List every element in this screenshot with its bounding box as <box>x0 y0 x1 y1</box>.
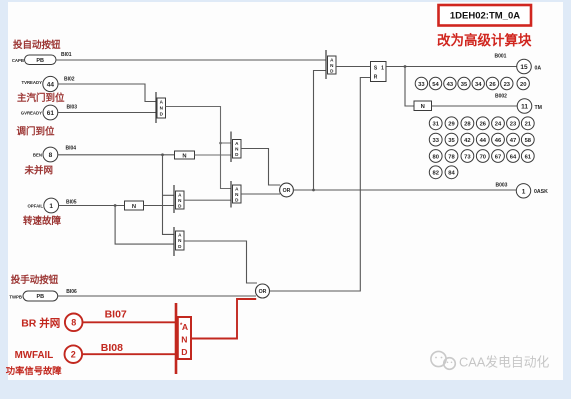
wire AND4 output to OR1 pin2 <box>241 193 280 195</box>
svg-text:35: 35 <box>448 138 455 144</box>
terminal B001 output 15 <box>517 59 532 74</box>
title block 1DEH02:TM_0A <box>439 5 532 26</box>
svg-text:TWPB: TWPB <box>9 295 22 300</box>
svg-text:D: D <box>181 347 187 357</box>
svg-text:1: 1 <box>381 66 384 72</box>
svg-text:OPFAIL: OPFAIL <box>27 204 43 209</box>
svg-text:24: 24 <box>495 122 502 128</box>
wire OR1 output to terminal B003 <box>293 189 516 191</box>
svg-text:N: N <box>421 104 425 110</box>
svg-text:43: 43 <box>447 82 454 88</box>
wire BI04: BEN to N1 <box>58 154 175 156</box>
gate AND3 <box>174 185 184 213</box>
wire BI01: CAPB to AND6 pin1 <box>56 59 326 61</box>
svg-text:54: 54 <box>432 82 439 88</box>
svg-text:23: 23 <box>504 82 511 88</box>
svg-text:2: 2 <box>71 350 76 360</box>
svg-text:80: 80 <box>432 154 438 160</box>
svg-text:21: 21 <box>525 122 532 128</box>
wire BI05 branch down to AND5 pin2 <box>115 206 174 245</box>
svg-text:46: 46 <box>495 138 502 144</box>
svg-text:CAA发电自动化: CAA发电自动化 <box>459 355 549 370</box>
terminal pins grid row 3: 80 78 73 70 67 64 61 <box>429 150 534 163</box>
gate OR2 <box>256 284 270 298</box>
svg-text:A: A <box>182 322 188 332</box>
svg-text:64: 64 <box>510 154 517 160</box>
svg-text:主汽门到位: 主汽门到位 <box>17 92 65 104</box>
input terminal BR 8 (red) <box>65 314 83 332</box>
svg-text:B002: B002 <box>495 94 507 100</box>
svg-text:61: 61 <box>525 154 532 160</box>
svg-text:OR: OR <box>259 289 267 295</box>
svg-text:PB: PB <box>36 58 44 64</box>
wire AND3 output to AND4 pin2 <box>184 199 231 201</box>
wire AND5 output to OR2 <box>184 241 257 283</box>
svg-text:功率信号故障: 功率信号故障 <box>6 365 62 376</box>
junction BI04 node at (162.5,154.8) <box>161 153 164 156</box>
svg-text:23: 23 <box>510 122 517 128</box>
svg-text:B001: B001 <box>495 54 507 60</box>
svg-text:CAPB: CAPB <box>12 58 24 63</box>
svg-text:投手动按钮: 投手动按钮 <box>11 274 59 286</box>
gate AND1 <box>156 92 166 123</box>
wire AND7 output to OR2 (red) <box>191 299 256 339</box>
wire BI06: TWPB to OR2 <box>58 295 256 297</box>
input pushbutton TWPB <box>9 291 57 301</box>
svg-text:26: 26 <box>480 122 487 128</box>
svg-text:TVREADY: TVREADY <box>21 80 42 85</box>
wire SR1 net down to N3 <box>405 67 414 107</box>
svg-text:调门到位: 调门到位 <box>17 126 56 138</box>
svg-text:84: 84 <box>448 171 455 177</box>
wire BI04 branch down to AND3 pin1 and AND5 pin1 <box>163 155 175 235</box>
terminal B002 output 11 <box>517 99 532 114</box>
junction OR1 net node at (313.5,190) <box>312 189 315 192</box>
svg-text:PB: PB <box>36 294 44 300</box>
svg-text:0A: 0A <box>535 65 542 71</box>
junction AND1 net node at (220.5,143) <box>219 142 222 145</box>
terminal pins row A: 33 54 43 35 34 26 23 20 <box>415 77 529 89</box>
svg-text:BI05: BI05 <box>66 200 77 206</box>
svg-text:N: N <box>181 335 187 345</box>
svg-text:BI07: BI07 <box>105 309 127 321</box>
input pushbutton CAPB <box>12 55 56 65</box>
svg-text:TM: TM <box>535 105 543 111</box>
svg-text:BI02: BI02 <box>64 77 75 83</box>
junction SR1 net node at (405,66.5) <box>404 65 407 68</box>
svg-text:OR: OR <box>283 188 291 194</box>
gate AND7 (red) <box>176 303 191 374</box>
wire N2 output to AND3 pin2 <box>144 205 175 207</box>
gate N1 (NOT) <box>175 151 195 159</box>
wire AND6 output to SR1 S input <box>336 66 371 68</box>
svg-text:N: N <box>132 204 136 210</box>
svg-text:GVREADY: GVREADY <box>21 111 42 116</box>
gate N2 (NOT) <box>125 201 144 210</box>
input terminal TVREADY 44 <box>21 76 58 91</box>
svg-text:82: 82 <box>432 171 438 177</box>
svg-text:33: 33 <box>432 138 439 144</box>
svg-text:44: 44 <box>480 138 487 144</box>
svg-text:73: 73 <box>464 154 471 160</box>
input terminal OPFAIL 1 <box>27 198 58 213</box>
svg-text:34: 34 <box>475 82 482 88</box>
terminal pins grid row 4: 82 84 <box>429 166 458 179</box>
svg-text:47: 47 <box>510 138 516 144</box>
svg-text:8: 8 <box>71 318 76 328</box>
svg-text:1: 1 <box>49 203 53 210</box>
input terminal BEN 8 <box>33 147 58 162</box>
svg-text:B003: B003 <box>496 183 508 189</box>
gate AND2 <box>231 132 241 163</box>
svg-text:BI01: BI01 <box>61 52 72 58</box>
terminal B003 output 1 <box>516 184 530 198</box>
svg-text:61: 61 <box>47 110 55 117</box>
svg-text:1: 1 <box>522 188 526 195</box>
wire BI05: OPFAIL to N2 <box>59 205 125 207</box>
wire OR1 net up to AND6 pin2 <box>314 71 327 191</box>
svg-text:BI08: BI08 <box>101 342 123 354</box>
junction BI05 node at (115.1,205.5) <box>114 204 117 207</box>
gate AND5 <box>174 227 184 256</box>
svg-text:15: 15 <box>520 64 528 71</box>
svg-text:BI04: BI04 <box>66 146 77 152</box>
svg-text:0ASK: 0ASK <box>534 189 548 195</box>
input terminal MWFAIL 2 (red) <box>65 345 83 363</box>
svg-text:44: 44 <box>47 81 55 88</box>
wire SR1 output to terminal B001 <box>386 66 517 68</box>
svg-text:67: 67 <box>495 154 501 160</box>
wire AND1 output to AND2 pin1 and AND4 pin1 <box>166 107 232 189</box>
wire BI02: TVREADY to AND1 pin1 <box>58 84 156 102</box>
svg-text:转速故障: 转速故障 <box>23 215 62 227</box>
svg-text:改为高级计算块: 改为高级计算块 <box>437 32 532 48</box>
svg-text:29: 29 <box>448 122 455 128</box>
svg-text:26: 26 <box>489 82 496 88</box>
svg-text:BI06: BI06 <box>66 289 77 295</box>
svg-text:8: 8 <box>49 152 53 159</box>
svg-text:58: 58 <box>525 138 532 144</box>
svg-text:11: 11 <box>521 104 528 111</box>
svg-text:35: 35 <box>461 82 468 88</box>
gate OR1 <box>280 183 294 197</box>
wire BI07: BR to AND7 pin1 <box>83 321 177 323</box>
svg-text:31: 31 <box>432 122 439 128</box>
wire AND2 output to OR1 pin1 <box>241 149 280 186</box>
terminal pins grid row 2: 33 35 42 44 46 47 58 <box>429 133 534 146</box>
terminal pins grid row 1: 31 29 28 26 24 23 21 <box>429 117 534 130</box>
wire N1 output to AND2 pin2 <box>195 154 232 156</box>
wire BI08: MWFAIL to AND7 pin2 <box>82 353 176 355</box>
wire OR2 output to SR1 R input <box>270 78 371 292</box>
input terminal GVREADY 61 <box>21 105 58 120</box>
svg-text:BR 并网: BR 并网 <box>21 317 60 330</box>
flip-flop SR1 <box>371 62 387 82</box>
svg-text:BI03: BI03 <box>67 105 78 111</box>
svg-text:1DEH02:TM_0A: 1DEH02:TM_0A <box>450 11 520 22</box>
svg-text:MWFAIL: MWFAIL <box>15 350 54 361</box>
wire N3 output to terminal B002 <box>432 105 518 107</box>
svg-text:未并网: 未并网 <box>24 165 54 177</box>
wire BI03: GVREADY to AND1 pin2 <box>58 112 156 114</box>
svg-text:42: 42 <box>464 138 470 144</box>
svg-text:28: 28 <box>464 122 471 128</box>
gate N3 (NOT) <box>414 101 432 111</box>
watermark WeChat icon <box>431 351 455 369</box>
gate AND4 <box>231 181 241 208</box>
svg-text:70: 70 <box>480 154 486 160</box>
svg-text:78: 78 <box>448 154 455 160</box>
svg-text:20: 20 <box>520 82 526 88</box>
gate AND6 <box>326 50 336 79</box>
svg-text:R: R <box>374 75 378 81</box>
svg-text:33: 33 <box>418 82 425 88</box>
svg-text:投自动按钮: 投自动按钮 <box>13 39 61 51</box>
svg-text:BEN: BEN <box>33 153 42 158</box>
svg-text:N: N <box>182 153 186 159</box>
